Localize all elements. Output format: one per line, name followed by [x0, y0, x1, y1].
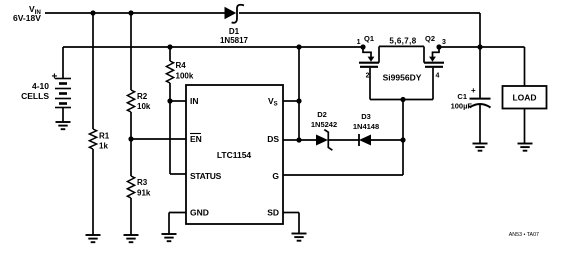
pin label STATUS: [190, 171, 222, 181]
svg-text:D2: D2: [317, 110, 327, 119]
svg-text:4: 4: [436, 73, 440, 80]
label D1: [229, 27, 240, 36]
node junction C1 / top-rail drop: [477, 44, 482, 49]
wire G pin lead: [283, 174, 403, 176]
ground R1: [86, 235, 101, 242]
resistor R3: [127, 176, 134, 198]
label 1N5817: [220, 36, 249, 45]
pin label SD: [267, 208, 279, 218]
wire R3 bottom lead: [130, 198, 132, 235]
wire top rail from D1 cathode to right corner: [239, 13, 480, 47]
label R2: [137, 92, 148, 101]
wire Q2 source to load corner: [439, 46, 525, 48]
node junction R4/IN/STATUS: [167, 98, 172, 103]
label 100k: [176, 71, 194, 80]
svg-text:CELLS: CELLS: [21, 91, 49, 101]
diode D1 1N5817 Schottky: [225, 5, 245, 23]
wire D2 cathode to D3 cathode: [328, 139, 359, 141]
label R1: [99, 132, 110, 141]
wire R2 top lead: [130, 13, 132, 90]
node junction gate rail / G: [400, 97, 405, 102]
wire GND pin lead: [169, 213, 186, 235]
wire D3 anode to gate node: [371, 139, 403, 141]
wire gate rail: [370, 99, 433, 101]
node junction R4 top: [167, 44, 172, 49]
ground LOAD: [518, 144, 533, 151]
svg-text:10k: 10k: [137, 102, 151, 111]
label battery plus: [52, 72, 58, 83]
label D2: [317, 110, 327, 119]
label pin 4: [436, 73, 440, 80]
svg-text:Q1: Q1: [364, 34, 374, 43]
label R4: [176, 61, 187, 70]
svg-text:LOAD: LOAD: [512, 93, 536, 103]
ground SD pin: [292, 234, 307, 241]
label LOAD: [512, 93, 536, 103]
wire IN to IC: [170, 100, 186, 102]
svg-text:Q2: Q2: [425, 34, 435, 43]
pin label VS: [268, 96, 278, 108]
label C1 plus: [471, 86, 476, 95]
transistor Q1 (Si9956DY half): [359, 47, 379, 100]
label pins 5,6,7,8: [389, 37, 416, 46]
svg-text:100µF: 100µF: [451, 102, 473, 111]
svg-text:SD: SD: [267, 208, 279, 218]
svg-text:5,6,7,8: 5,6,7,8: [389, 37, 416, 46]
label 1N5242: [311, 120, 337, 129]
svg-text:1N5817: 1N5817: [220, 36, 249, 45]
wire R4 bottom to IN junction: [169, 83, 171, 101]
svg-text:1k: 1k: [99, 141, 108, 150]
wire R4 top lead: [169, 47, 171, 61]
label D3: [361, 112, 371, 121]
wire DS to D2 anode: [299, 139, 316, 141]
node junction VS: [296, 98, 301, 103]
wire DS pin lead: [283, 139, 299, 141]
svg-text:C1: C1: [457, 92, 467, 101]
wire STATUS feedback vertical: [169, 101, 171, 174]
svg-text:4-10: 4-10: [32, 81, 49, 91]
node junction R2/R3/EN: [128, 136, 133, 141]
capacitor C1 100uF: [470, 99, 491, 144]
wire down to LOAD box: [524, 47, 526, 86]
label 10k: [137, 102, 151, 111]
svg-text:R1: R1: [99, 132, 110, 141]
label pin 2: [366, 73, 370, 80]
wire VS pin lead: [283, 100, 299, 102]
label Si9956DY: [383, 73, 422, 83]
svg-text:91k: 91k: [137, 188, 151, 197]
svg-text:R2: R2: [137, 92, 148, 101]
wire C1 top lead: [479, 47, 481, 98]
wire R1 top lead: [92, 13, 94, 129]
wire R2 to EN junction: [130, 112, 132, 139]
ground C1: [473, 144, 488, 151]
ground GND pin: [162, 234, 177, 241]
svg-text:D3: D3: [361, 112, 371, 121]
pin label EN with overline: [190, 134, 202, 145]
svg-text:DS: DS: [267, 134, 279, 144]
node junction DS: [296, 137, 301, 142]
svg-text:2: 2: [366, 73, 370, 80]
node junction VS/DS sense line top: [296, 44, 301, 49]
svg-text:6V-18V: 6V-18V: [13, 13, 41, 23]
wire top rail from VIN to D1 anode: [45, 12, 226, 14]
label 1N4148: [353, 122, 379, 131]
svg-text:1N4148: 1N4148: [353, 122, 379, 131]
pin label G: [272, 171, 279, 181]
label pin 1: [357, 39, 361, 46]
wire G vertical (gate drive): [402, 100, 404, 176]
pin label DS: [267, 134, 279, 144]
resistor R2: [127, 90, 134, 112]
svg-text:1N5242: 1N5242: [311, 120, 337, 129]
wire R3 top lead: [130, 139, 132, 176]
wire VS sense vertical: [298, 47, 300, 140]
wire SD pin lead: [283, 213, 299, 234]
diode D2 1N5242 zener: [316, 130, 332, 151]
resistor R4: [166, 61, 173, 83]
svg-text:R4: R4: [176, 61, 187, 70]
svg-text:STATUS: STATUS: [190, 171, 222, 181]
transistor Q2 (Si9956DY half): [424, 47, 444, 100]
svg-text:R3: R3: [137, 178, 148, 187]
label pin 3: [442, 39, 446, 46]
svg-text:IN: IN: [190, 96, 199, 106]
wire STATUS feedback to IC: [170, 173, 186, 175]
svg-text:1: 1: [357, 39, 361, 46]
wire LOAD bottom lead: [524, 109, 526, 144]
label CELLS: [21, 91, 49, 101]
label AN53 TA07: [509, 232, 539, 238]
svg-text:GND: GND: [190, 208, 209, 218]
label 4-10: [32, 81, 49, 91]
label Q2: [425, 34, 435, 43]
op-amp U1 LTC1154 body: [186, 85, 283, 224]
svg-text:D1: D1: [229, 27, 240, 36]
label VIN supply: [13, 4, 41, 23]
wire drain bracket 5,6,7,8: [379, 46, 424, 62]
label 1k: [99, 141, 108, 150]
svg-text:G: G: [272, 171, 279, 181]
svg-text:+: +: [52, 72, 58, 83]
battery 4-10 CELLS: [55, 47, 71, 122]
svg-text:+: +: [471, 86, 476, 95]
svg-text:Si9956DY: Si9956DY: [383, 73, 422, 83]
wire VIN rail (battery to Q1 source): [63, 46, 363, 48]
label 91k: [137, 188, 151, 197]
pin label GND: [190, 208, 209, 218]
node junction D3/G: [400, 137, 405, 142]
svg-text:3: 3: [442, 39, 446, 46]
label Q1: [364, 34, 374, 43]
label LTC1154: [217, 150, 252, 160]
wire EN to IC: [131, 138, 186, 140]
label 100uF: [451, 102, 473, 111]
diode D3 1N4148: [359, 134, 371, 146]
pin label IN: [190, 96, 199, 106]
resistor R1: [89, 129, 96, 149]
ground battery: [56, 122, 71, 129]
label R3: [137, 178, 148, 187]
svg-text:AN53 • TA07: AN53 • TA07: [509, 232, 539, 238]
node junction Q2 source: [436, 44, 441, 49]
label C1: [457, 92, 467, 101]
node junction Q1 source: [360, 44, 365, 49]
wire R1 bottom lead: [92, 149, 94, 235]
ground R3: [124, 235, 139, 242]
load box: [503, 86, 547, 109]
node junction R1 / top rail: [90, 10, 95, 15]
svg-text:LTC1154: LTC1154: [217, 150, 252, 160]
node junction R2 / top rail: [128, 10, 133, 15]
svg-text:100k: 100k: [176, 71, 194, 80]
svg-text:EN: EN: [190, 134, 202, 144]
